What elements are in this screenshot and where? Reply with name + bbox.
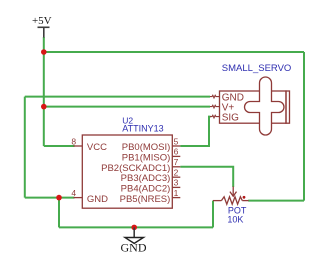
wire servo V+ — [44, 106, 210, 108]
svg-text:GND: GND — [121, 240, 147, 254]
junction node +5V/V+ — [41, 104, 47, 110]
potentiometer pin marker dot — [243, 196, 246, 199]
wire GND drop — [58, 198, 60, 228]
svg-text:7: 7 — [174, 157, 179, 167]
svg-text:10K: 10K — [227, 214, 243, 224]
svg-text:+5V: +5V — [32, 15, 52, 27]
junction node GND rail — [131, 225, 137, 231]
svg-text:2: 2 — [174, 168, 179, 178]
pin 1 stub — [172, 197, 180, 199]
svg-text:PB2(SCKADC1): PB2(SCKADC1) — [101, 163, 170, 174]
svg-text:4: 4 — [71, 188, 76, 198]
pin 5 stub — [172, 145, 180, 147]
potentiometer POT right lead — [242, 200, 248, 202]
connector SMALL_SERVO flange — [286, 91, 290, 123]
servo pin GND stub — [210, 95, 220, 98]
svg-text:6: 6 — [174, 147, 179, 157]
wire pot left riser — [212, 201, 214, 228]
wire right rail — [303, 52, 305, 201]
power +5V symbol — [32, 15, 52, 38]
wire bottom GND rail — [59, 226, 213, 228]
potentiometer wiper arrow — [230, 187, 237, 197]
wire left riser — [24, 97, 26, 198]
pin 7 stub — [172, 166, 180, 168]
wire pin4 feed — [25, 197, 75, 199]
wire servo GND — [25, 96, 210, 98]
svg-text:SMALL_SERVO: SMALL_SERVO — [222, 63, 292, 74]
junction node +5V/top rail — [41, 49, 47, 55]
svg-text:SIG: SIG — [222, 112, 239, 123]
connector SMALL_SERVO body — [220, 91, 287, 123]
pin 6 stub — [172, 155, 180, 157]
wire top rail — [44, 51, 304, 53]
potentiometer POT left lead — [213, 200, 221, 202]
svg-text:GND: GND — [87, 194, 108, 205]
pin 2 stub — [172, 176, 180, 178]
servo horn cross — [245, 77, 284, 135]
pin 8 VCC stub — [74, 145, 83, 147]
ground symbol GND — [121, 227, 147, 254]
svg-text:8: 8 — [71, 136, 76, 146]
svg-text:PB5(NRES): PB5(NRES) — [120, 194, 171, 205]
pin 3 stub — [172, 186, 180, 188]
servo pin SIG stub — [210, 115, 220, 118]
svg-text:3: 3 — [174, 178, 179, 188]
op-amp U2 ATTINY13 body — [82, 135, 172, 208]
wire pin7 to pot wiper — [180, 167, 233, 187]
svg-text:1: 1 — [174, 188, 179, 198]
svg-text:5: 5 — [174, 136, 179, 146]
servo pin V+ stub — [210, 105, 220, 108]
wire pin5 to SIG — [180, 117, 210, 146]
pin 4 GND stub — [74, 197, 83, 199]
svg-text:VCC: VCC — [87, 142, 107, 153]
wire +5V rail vertical — [43, 37, 45, 146]
wire VCC feed — [44, 145, 75, 147]
junction node GND/pin4 — [56, 195, 62, 201]
svg-text:ATTINY13: ATTINY13 — [122, 124, 163, 134]
wire pot right feed — [248, 200, 304, 202]
potentiometer POT zigzag — [221, 197, 242, 204]
